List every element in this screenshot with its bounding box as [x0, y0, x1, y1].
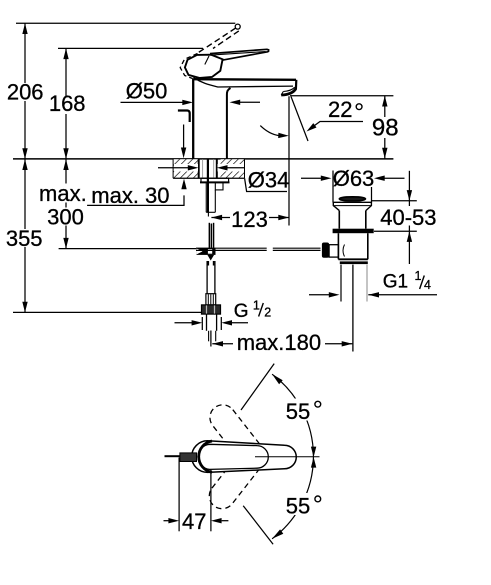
rod clamp [196, 248, 215, 255]
hose crimp [206, 294, 216, 305]
svg-text:47: 47 [182, 509, 206, 534]
shank flange washer [201, 178, 229, 182]
extension diagonal bottom [243, 506, 273, 545]
dashed knuckle ghost [180, 54, 197, 79]
handle tab [180, 453, 197, 462]
svg-text:max.180: max.180 [237, 330, 321, 355]
fraction slash G 1/2 [259, 303, 264, 317]
svg-text:2: 2 [264, 305, 271, 319]
svg-text:22: 22 [328, 97, 352, 122]
degree circle 22 [356, 104, 362, 110]
svg-text:1: 1 [415, 269, 422, 283]
reference line outlet (98 top) [290, 95, 393, 97]
dimension 123 [211, 217, 230, 219]
horizontal pop-up rod [196, 247, 267, 249]
dashed lever raised (tip circle) [235, 24, 240, 29]
drain upper cup [338, 211, 340, 229]
drain flange [333, 202, 371, 210]
body right edge with fillet [227, 88, 231, 159]
svg-text:55: 55 [286, 399, 310, 424]
dimension line 98 [384, 96, 386, 159]
mounting plate hatched right [221, 159, 245, 178]
mounting surface line [13, 158, 393, 160]
svg-text:4: 4 [424, 278, 431, 292]
leader max30 underline [87, 195, 184, 205]
svg-text:55: 55 [286, 493, 310, 518]
svg-text:300: 300 [47, 204, 84, 229]
reference line max300 bottom [59, 248, 197, 250]
dimension 47 [178, 458, 180, 532]
label leader Ø34 [245, 178, 287, 191]
arrow max30 up to plate underside [181, 179, 186, 190]
handle top view inner [198, 444, 268, 469]
hose nut [202, 305, 221, 314]
supply hose upper [206, 261, 208, 294]
knuckle (lever boss) [185, 55, 223, 78]
plate bottom edge [173, 177, 244, 179]
drain bottom rings [338, 258, 367, 260]
degree circle 55 bottom [315, 496, 321, 502]
knuckle facet lines [205, 56, 209, 65]
svg-text:G1: G1 [383, 272, 408, 293]
step block [215, 183, 223, 190]
faucet body / spout top edge [193, 78, 296, 81]
handle top view outer [192, 441, 297, 473]
degree circle 55 top [315, 401, 321, 407]
spout underside line [193, 77, 293, 87]
svg-text:355: 355 [6, 226, 43, 251]
svg-text:max.: max. [39, 181, 87, 206]
svg-text:98: 98 [372, 114, 399, 141]
spout outlet extension line down [288, 96, 290, 225]
svg-text:Ø34: Ø34 [248, 167, 290, 192]
swing arc 55deg [272, 374, 313, 539]
svg-text:168: 168 [49, 91, 86, 116]
svg-text:Ø50: Ø50 [126, 79, 168, 104]
svg-text:1: 1 [253, 298, 260, 312]
aerator [281, 89, 296, 95]
halo for plate arrows [174, 164, 198, 172]
ghost handle rotated down 55deg [204, 439, 271, 514]
fraction slash G1 1/4 [420, 276, 425, 290]
threaded stud [207, 159, 209, 212]
rod stub [165, 455, 180, 457]
hook leader with down arrow [183, 125, 185, 148]
faucet body left edge [192, 79, 194, 159]
svg-text:123: 123 [231, 207, 268, 232]
handle centerline [255, 456, 320, 458]
swing arc 22deg [260, 126, 283, 136]
svg-text:G: G [234, 301, 249, 322]
reference line 355 bottom [13, 311, 204, 313]
dimension line max300 [65, 159, 67, 248]
dimension G 1/2 [201, 317, 203, 330]
drain tailpipe [340, 265, 342, 302]
lever arm [210, 49, 269, 60]
extension diagonal top [241, 364, 274, 410]
svg-text:40-53: 40-53 [380, 205, 436, 230]
dimension 40-53 [372, 200, 417, 202]
ghost handle rotated up 55deg [205, 400, 272, 475]
pop-up rod vertical [208, 223, 210, 248]
stream direction line 22deg [291, 97, 308, 142]
dimension line 168 [65, 48, 67, 158]
svg-text:max. 30: max. 30 [91, 183, 169, 208]
leader 22deg [309, 122, 363, 130]
dimension line 355 [24, 159, 26, 312]
hose lower [206, 314, 208, 331]
drain lower body [337, 233, 339, 259]
drain: Ø63 extension lines [332, 171, 334, 203]
svg-text:Ø63: Ø63 [333, 166, 375, 191]
dimension Ø50 [121, 101, 183, 103]
dashed lever raised lines [197, 28, 236, 53]
dimension max180 [210, 331, 212, 347]
mounting plate hatched left [173, 159, 198, 178]
hook on left of body [178, 111, 190, 123]
dimension Ø63 [301, 177, 321, 179]
reference line handle-lowered (168 level) [58, 47, 203, 49]
drain side knob [322, 243, 329, 258]
plate thickness arrows (Ø34 tube) [158, 167, 188, 169]
shank tube walls through plate [198, 159, 200, 178]
drain rubber washer [333, 229, 374, 234]
drain plug cap [339, 197, 365, 201]
reference line top (206 level) [16, 22, 235, 24]
dimension line 206 [24, 23, 26, 159]
dimension G 1 1/4 [309, 294, 329, 296]
svg-text:206: 206 [7, 80, 44, 105]
